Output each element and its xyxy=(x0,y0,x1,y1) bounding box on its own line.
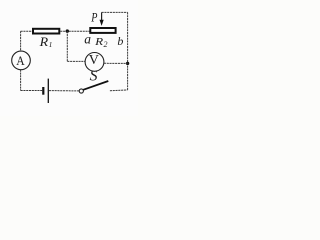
voltmeter branch: vertical drop xyxy=(66,31,68,61)
switch S lever xyxy=(83,81,108,90)
label R1 xyxy=(39,35,53,49)
battery cell positive plate xyxy=(47,79,49,103)
svg-text:2: 2 xyxy=(104,40,108,49)
node junction top (voltmeter tap) xyxy=(66,29,69,32)
resistor R1 xyxy=(33,29,59,34)
voltmeter branch: horizontal to V xyxy=(67,60,85,62)
svg-text:V: V xyxy=(89,53,99,68)
wire V to right junction xyxy=(104,62,128,64)
wire left vertical lower xyxy=(20,70,22,91)
svg-text:P: P xyxy=(91,11,98,25)
svg-text:A: A xyxy=(16,53,25,68)
rheostat R2 xyxy=(90,28,115,33)
battery cell negative plate xyxy=(42,87,44,95)
wire bottom left (corner to battery) xyxy=(21,90,43,92)
switch S pivot xyxy=(79,89,83,93)
voltmeter V xyxy=(85,53,104,72)
wire right vertical xyxy=(127,12,129,90)
wire switch to bottom-right corner xyxy=(110,89,128,92)
wire left vertical upper xyxy=(20,31,22,51)
wire wiper top horizontal xyxy=(102,11,128,13)
wire R1 to R2 xyxy=(60,30,90,32)
svg-text:b: b xyxy=(117,34,123,48)
wire top-left horizontal (corner to R1) xyxy=(21,30,33,32)
label R2 xyxy=(94,36,107,49)
wiper arrow P xyxy=(100,12,104,26)
svg-text:R: R xyxy=(39,35,49,49)
svg-text:1: 1 xyxy=(49,40,53,49)
svg-text:R: R xyxy=(94,36,104,48)
svg-text:a: a xyxy=(84,31,91,46)
ammeter A xyxy=(12,51,31,70)
node junction right (voltmeter) xyxy=(126,62,129,65)
wire battery to switch xyxy=(49,90,79,92)
